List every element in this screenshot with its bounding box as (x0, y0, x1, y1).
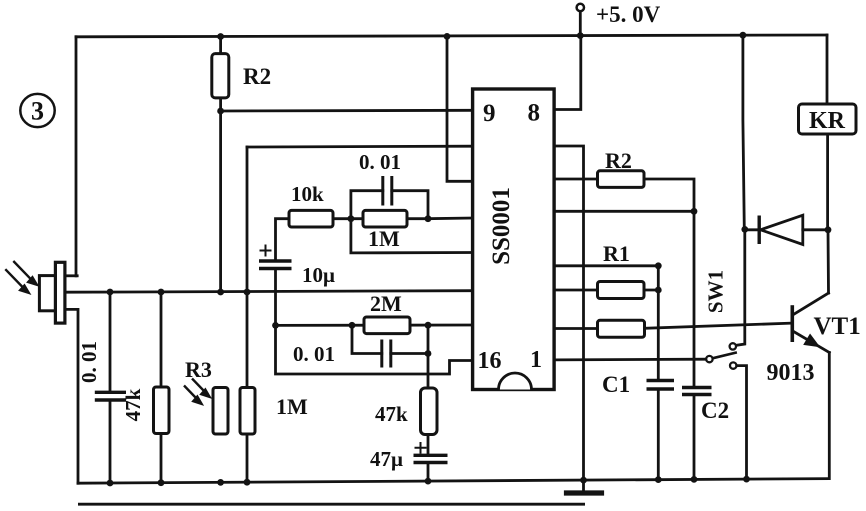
node rail 47k left (158, 479, 165, 486)
node R2 right corner (691, 208, 698, 215)
wire sensor bottom stub down to ground rail (65, 309, 78, 483)
label 1M horizontal (368, 226, 400, 251)
photoresistor R3 light arrows (184, 379, 210, 404)
resistor R2 right body (598, 171, 645, 188)
node signal at 0.01 (107, 289, 114, 296)
node R2 bottom (217, 108, 224, 115)
node rail 0.01 (107, 480, 114, 487)
capacitor 47u polarity plus sign (415, 442, 427, 454)
transistor VT1 collector lead (794, 293, 829, 315)
node top rail at diode branch (740, 32, 747, 39)
resistor below R1 body (598, 320, 645, 337)
wire diode cathode lead to relay line (803, 228, 828, 231)
node rail switch (743, 476, 750, 483)
capacitor C2 plates (682, 388, 712, 395)
node rail C2 (691, 476, 698, 483)
wire top +5V rail (76, 35, 827, 37)
node 10u at 2M line (272, 322, 279, 329)
svg-text:47k: 47k (375, 402, 408, 426)
transistor VT1 base bar (790, 307, 794, 340)
label 2M (370, 291, 402, 316)
wire left frame vertical (75, 37, 78, 276)
wire 47k left branch (160, 292, 163, 483)
capacitor C1 plates (647, 381, 675, 390)
switch SW1 blade (712, 352, 737, 358)
wire R2 branch vertical from top rail through R2 down to signal line (219, 37, 222, 293)
sensor IR receiver tall element (55, 262, 65, 323)
capacitor 0.01 top feedback plates (383, 176, 392, 206)
wire 2M line from 10u node to IC pin 15 (276, 324, 473, 327)
switch SW1 upper throw contact (730, 343, 736, 349)
node top rail at R2 (217, 33, 224, 40)
svg-text:+5. 0V: +5. 0V (596, 2, 661, 27)
label 47k left rotated (121, 388, 145, 421)
label R3 (185, 357, 212, 382)
svg-text:9013: 9013 (767, 360, 815, 386)
capacitor 10u electrolytic plates (259, 261, 292, 269)
wire relay KR bottom to transistor collector (826, 134, 830, 293)
IC U1 SS0001 outline (473, 89, 554, 390)
wire IC pin 2 through resistor to transistor base (554, 323, 790, 328)
svg-text:16: 16 (478, 348, 502, 374)
label 10u (302, 263, 335, 287)
label R2 right (605, 148, 632, 173)
wire 1M right lead to node (392, 191, 428, 219)
capacitor 47u plates (414, 455, 448, 462)
resistor R3 photoresistor body (213, 388, 228, 435)
svg-text:R1: R1 (603, 241, 630, 266)
wire 10k to 1M node (333, 217, 363, 220)
label C2 (701, 398, 729, 423)
node signal at 1M vertical (244, 289, 251, 296)
label 0.01 feedback (359, 150, 401, 174)
node 1M right junction (425, 215, 432, 222)
wire 10k left lead down to 10u capacitor (276, 219, 290, 261)
resistor 10k body (289, 210, 333, 227)
wire IC pin 7 to ground (554, 146, 583, 480)
ground symbol (567, 480, 602, 493)
label 0.01 lower (293, 342, 335, 366)
node R1 right (655, 287, 662, 294)
resistor 47k left body (154, 387, 170, 434)
node 2M left (349, 322, 356, 329)
svg-text:47k: 47k (121, 388, 145, 421)
label IC pin 16 (478, 348, 502, 374)
node rail 1M (244, 479, 251, 486)
label 47u (370, 447, 403, 471)
svg-text:0. 01: 0. 01 (359, 150, 401, 174)
node diode left (741, 226, 748, 233)
capacitor 0.01 lower plates (382, 340, 391, 368)
figure number 3 glyph (31, 97, 44, 126)
label R1 (603, 241, 630, 266)
label 1M vertical (276, 394, 308, 419)
sensor incident light arrows (5, 261, 37, 293)
wire 1M branch vertical from inner loop through signal line down to rail (246, 147, 249, 482)
label SS0001 rotated (488, 187, 515, 265)
capacitor 10u polarity plus sign (260, 245, 272, 257)
wire IC pin 8 to +5V rail (554, 36, 581, 110)
svg-text:KR: KR (809, 108, 846, 134)
svg-text:2M: 2M (370, 291, 402, 316)
wire IC pin 1 to switch common (554, 358, 706, 361)
resistor R2 top-left body (212, 54, 229, 98)
node 0.01 lower right (425, 350, 432, 357)
svg-text:C1: C1 (602, 372, 630, 397)
svg-text:10k: 10k (291, 182, 324, 206)
wire C1 branch vertical (657, 266, 660, 480)
svg-text:8: 8 (528, 100, 541, 127)
label IC pin 1 (530, 347, 542, 373)
node rail C1 (655, 476, 662, 483)
svg-text:10μ: 10μ (302, 263, 335, 287)
capacitor 0.01 input plates (95, 392, 126, 400)
svg-text:SW1: SW1 (704, 270, 728, 313)
wire switch upper contact to +5V diode node (736, 229, 745, 345)
wire 0.01 lower cap left loop (352, 325, 382, 353)
wire IC pin 3 through R1 (554, 289, 658, 292)
label 10k (291, 182, 324, 206)
svg-text:3: 3 (31, 97, 44, 126)
switch SW1 common contact (706, 356, 712, 362)
svg-text:R2: R2 (605, 148, 632, 173)
svg-text:SS0001: SS0001 (488, 187, 515, 265)
node diode right (825, 226, 832, 233)
wire IC pin 5 to R2 right node (554, 210, 694, 213)
wire switch lower contact down to ground rail (736, 366, 746, 480)
label +5.0V (596, 2, 661, 27)
wire IC pin 6 through R2 to corner node (554, 179, 694, 211)
label SW1 rotated (704, 270, 728, 313)
label 9013 (767, 360, 815, 386)
wire from R2 bottom node to IC pin 9 (221, 109, 473, 112)
resistor R1 body (598, 282, 645, 299)
diode VD flyback (759, 215, 803, 244)
wire C2 branch vertical (693, 211, 696, 479)
label KR (809, 108, 846, 134)
wire top rail right corner down to relay KR (826, 35, 829, 104)
svg-text:1: 1 (530, 347, 542, 373)
sensor IR receiver left box (39, 276, 56, 311)
svg-text:0. 01: 0. 01 (293, 342, 335, 366)
wire IC pin 4 to C1 node (554, 264, 658, 267)
svg-text:VT1: VT1 (814, 313, 861, 340)
node 2M right (425, 322, 432, 329)
wire inner loop top to IC pin 10 (247, 145, 473, 149)
+5V supply terminal (577, 4, 584, 11)
node top rail at +5V (577, 32, 584, 39)
svg-text:1M: 1M (368, 226, 400, 251)
resistor 1M vertical body (240, 388, 255, 435)
circled figure number 3 (20, 94, 54, 127)
node pin4 C1 (655, 262, 662, 269)
wire emitter down to ground rail (828, 353, 831, 479)
node rail R3 (217, 479, 224, 486)
bottom page edge line (78, 503, 585, 506)
node 10k-1M junction (348, 215, 355, 222)
wire 0.01 feedback cap left loop (351, 191, 383, 219)
wire 1M right node to IC pin 12 (428, 217, 473, 220)
node signal at R3 (217, 289, 224, 296)
wire pin 16 loop (276, 325, 473, 374)
wire top rail down to diode node (743, 35, 744, 229)
resistor 47k right body (421, 388, 438, 435)
node rail ground (580, 477, 587, 484)
svg-text:1M: 1M (276, 394, 308, 419)
transistor VT1 emitter lead with arrow (794, 332, 830, 353)
wire +5V terminal stub (579, 11, 582, 36)
label IC pin 8 (528, 100, 541, 127)
node rail 47k right (425, 478, 432, 485)
svg-text:R3: R3 (185, 357, 212, 382)
label 0.01 input rotated (77, 341, 101, 383)
svg-text:0. 01: 0. 01 (77, 341, 101, 383)
wire 1M-10k node down to IC pin 13 (351, 219, 473, 253)
wire bottom ground rail (78, 479, 829, 484)
label C1 (602, 372, 630, 397)
node signal at 47k (158, 289, 165, 296)
resistor 1M horizontal body (363, 210, 407, 227)
svg-text:47μ: 47μ (370, 447, 403, 471)
svg-text:9: 9 (483, 100, 496, 127)
switch SW1 lower throw contact (730, 362, 736, 368)
wire 10u bottom down to 2M line node (274, 269, 277, 326)
svg-text:R2: R2 (243, 64, 271, 89)
wire vertical from top rail to IC pin 11 (447, 36, 473, 181)
resistor 2M body (364, 317, 410, 334)
node top rail at pin11 branch (444, 33, 451, 40)
relay KR box (799, 104, 857, 134)
wire 0.01 lower cap right loop and 47k branch (391, 325, 428, 481)
wire diode anode lead (745, 228, 759, 231)
wire 0.01 input cap branch (109, 292, 112, 483)
label R2 top (243, 64, 271, 89)
label IC pin 9 (483, 100, 496, 127)
label VT1 (814, 313, 861, 340)
label 47k right (375, 402, 408, 426)
wire main signal line from sensor to IC pin 14 (65, 291, 473, 293)
svg-text:C2: C2 (701, 398, 729, 423)
wire sensor top stub (65, 274, 77, 277)
IC bottom notch (499, 373, 532, 389)
